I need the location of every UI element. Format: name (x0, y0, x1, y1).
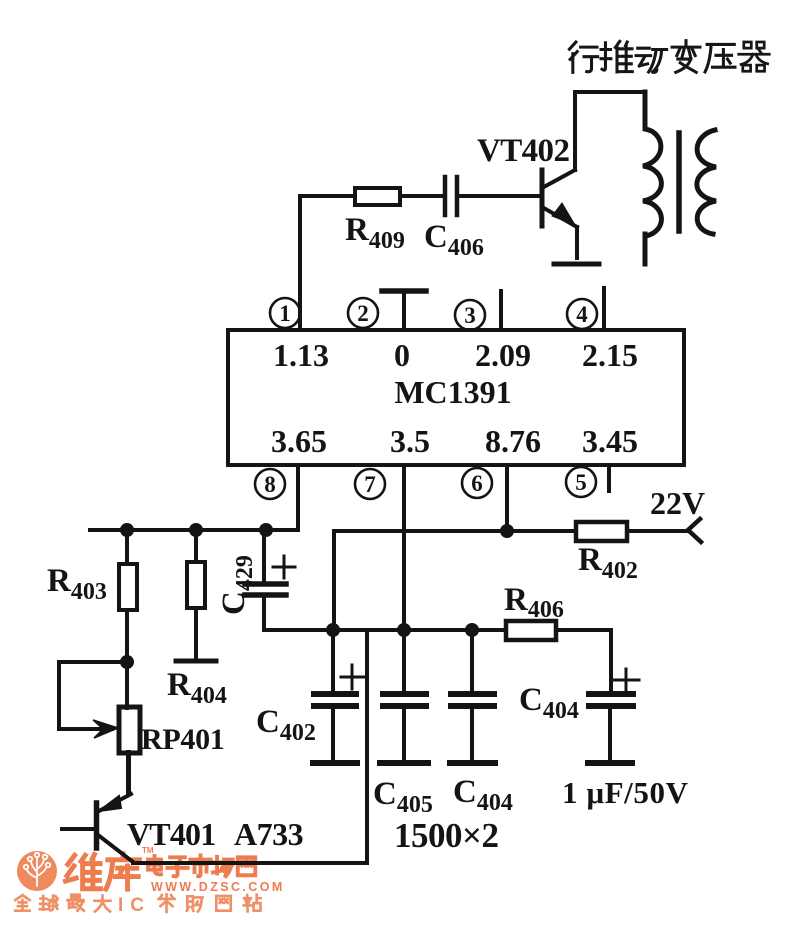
capacitor C405 (383, 694, 426, 706)
resistor R403 (125, 530, 129, 564)
watermark hanzi chang (213, 857, 233, 876)
wire elbow down to decoupling line (332, 531, 336, 630)
pin 4 wire (602, 288, 606, 330)
svg-text:1.13: 1.13 (273, 337, 329, 373)
svg-text:MC1391: MC1391 (394, 374, 511, 410)
ground VT402 emitter (554, 262, 599, 267)
C429 plus sign (273, 556, 295, 578)
svg-text:VT402: VT402 (477, 133, 569, 169)
transformer primary winding (643, 92, 661, 264)
svg-text:C402: C402 (256, 704, 316, 746)
potentiometer RP401 arrow (93, 720, 118, 738)
svg-text:3.45: 3.45 (582, 423, 638, 459)
svg-text:8.76: 8.76 (485, 423, 541, 459)
watermark hanzi ku (106, 854, 139, 889)
wire decoupling line y630 (333, 630, 611, 691)
svg-text:1 μF/50V: 1 μF/50V (562, 775, 689, 810)
resistor R404 (194, 530, 198, 562)
svg-text:WWW.DZSC.COM: WWW.DZSC.COM (151, 880, 285, 894)
watermark hanzi zi (167, 857, 187, 876)
svg-text:R403: R403 (47, 563, 107, 605)
pin number 2 (348, 298, 378, 328)
wire R402 to 22V terminal (627, 529, 688, 533)
node junction pin6 (500, 524, 514, 538)
resistor R409 (355, 188, 400, 205)
watermark slogan wang2 (216, 896, 230, 911)
wire base feed from pin1 corner to R409 (300, 194, 355, 198)
capacitor C429 (262, 530, 266, 581)
svg-text:4: 4 (576, 302, 588, 327)
node junction R404 rail (189, 523, 203, 537)
node junction C404 (465, 623, 479, 637)
ground C404 electrolytic (588, 760, 632, 766)
svg-text:6: 6 (471, 471, 483, 496)
svg-text:A733: A733 (234, 816, 303, 852)
svg-text:1: 1 (279, 301, 291, 326)
pin 8 wire (296, 465, 300, 530)
watermark hanzi wang (238, 857, 255, 875)
pin 2 wire with cap bar (402, 294, 406, 330)
watermark hanzi shi (190, 855, 210, 876)
node junction R403 bottom (120, 655, 134, 669)
potentiometer RP401 (125, 662, 129, 708)
pin number 4 (567, 299, 597, 329)
watermark slogan zhan (244, 895, 261, 912)
transformer secondary winding (697, 130, 716, 234)
pin 7 wire down to C405 (402, 465, 406, 694)
transistor VT401 (62, 752, 133, 862)
node junction C429 rail (259, 523, 273, 537)
pin number 6 (462, 468, 492, 498)
svg-text:3.65: 3.65 (271, 423, 327, 459)
pin 5 wire (607, 465, 611, 491)
pin number 5 (566, 467, 596, 497)
svg-text:2.09: 2.09 (475, 337, 531, 373)
watermark slogan qiu (40, 896, 57, 911)
svg-text:3.5: 3.5 (390, 423, 430, 459)
svg-text:0: 0 (394, 337, 410, 373)
title hanzi tui (push) (601, 41, 632, 72)
wire left supply rail (90, 528, 298, 532)
ground C405 (380, 760, 428, 766)
pin number 1 (270, 298, 300, 328)
watermark hanzi wei (66, 855, 101, 889)
node junction C402 (326, 623, 340, 637)
svg-text:VT401: VT401 (127, 816, 215, 852)
capacitor C404 third (470, 630, 474, 691)
wire transformer top (575, 90, 645, 94)
node junction R403 rail (120, 523, 134, 537)
ground C404 (450, 760, 495, 766)
C404 plus sign (612, 669, 639, 692)
wire pin1 vertical (298, 196, 302, 330)
svg-text:RP401: RP401 (141, 723, 225, 756)
svg-text:C404: C404 (519, 682, 579, 724)
svg-text:IC: IC (118, 895, 151, 916)
svg-text:2: 2 (357, 301, 369, 326)
ground R404 (176, 659, 216, 664)
svg-text:C405: C405 (373, 776, 433, 818)
pin number 7 (355, 469, 385, 499)
wire VT401 collector to decoupling node (133, 630, 367, 863)
title hanzi bian (trans) (672, 41, 700, 73)
resistor R406 (506, 621, 556, 640)
capacitor C402 electrolytic (331, 630, 335, 691)
svg-text:C404: C404 (453, 774, 513, 816)
title hanzi qi (device) (739, 42, 770, 71)
pin 3 wire (499, 291, 503, 330)
transistor VT402 (542, 92, 577, 258)
title hanzi dong (drive) (636, 48, 667, 72)
svg-text:3: 3 (464, 303, 476, 328)
wire C406 to VT402 base (459, 194, 540, 198)
watermark slogan gou (187, 896, 203, 911)
svg-text:5: 5 (575, 470, 587, 495)
svg-text:8: 8 (264, 472, 276, 497)
wire RP401 feedback loop (59, 662, 127, 729)
watermark slogan quan (15, 895, 29, 911)
svg-text:R402: R402 (578, 542, 638, 584)
svg-text:7: 7 (364, 472, 376, 497)
svg-text:2.15: 2.15 (582, 337, 638, 373)
watermark slogan zui (68, 895, 84, 911)
svg-text:R406: R406 (504, 582, 564, 623)
svg-text:C406: C406 (424, 219, 484, 261)
watermark logo circle (17, 851, 57, 891)
ground C402 (313, 760, 357, 766)
capacitor C406 (445, 177, 457, 215)
pin number 3 (455, 300, 485, 330)
node 22V terminal chevron (688, 519, 701, 542)
C402 plus sign (341, 665, 364, 689)
pin 6 wire (505, 465, 509, 531)
svg-text:R409: R409 (345, 212, 405, 254)
wire R409 to C406 (400, 194, 443, 198)
wire 22V rail (334, 529, 576, 533)
svg-text:R404: R404 (167, 667, 227, 709)
title hanzi xing (line) (569, 42, 597, 72)
svg-text:22V: 22V (650, 485, 705, 521)
capacitor C404 electrolytic 1uF/50V (589, 694, 633, 706)
watermark hanzi dian (148, 856, 161, 874)
transformer core (676, 133, 682, 231)
watermark slogan cai (159, 894, 175, 911)
pin number 8 (255, 469, 285, 499)
watermark slogan da (95, 896, 111, 912)
node junction pin7/C405 (397, 623, 411, 637)
resistor R402 (576, 522, 627, 541)
IC U1 MC1391 (228, 330, 684, 465)
svg-text:C429: C429 (216, 555, 258, 615)
svg-text:1500×2: 1500×2 (394, 816, 498, 855)
title hanzi ya (former) (705, 44, 735, 72)
